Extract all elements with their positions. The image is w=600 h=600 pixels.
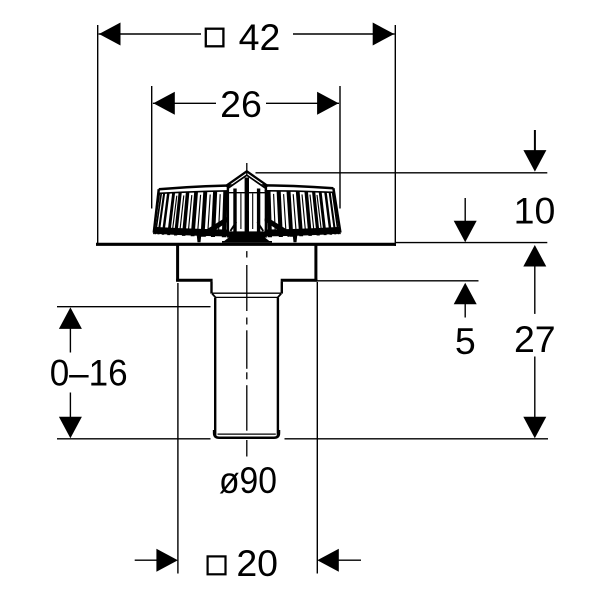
- collar bottom right segment: [281, 279, 318, 282]
- dimension 5 lower stem: [464, 304, 466, 318]
- dimension 26 right extension line: [339, 86, 341, 209]
- collar right edge: [314, 245, 317, 282]
- dimension 26 line right segment: [266, 102, 339, 104]
- dimension 10 arrow stem: [534, 130, 536, 151]
- dimension 26 left arrow: [153, 92, 175, 115]
- pipe right wall: [277, 298, 279, 437]
- socket left edge: [210, 282, 212, 294]
- dimension 20 left extension line: [177, 283, 179, 574]
- cap center bell: [226, 171, 268, 237]
- cap left wing grip: [200, 217, 231, 237]
- dimension 5 upper stem: [464, 198, 466, 221]
- roof plate thick line: [96, 243, 395, 246]
- socket bead lower line: [216, 296, 279, 298]
- pipe bottom edge: [214, 430, 279, 438]
- svg-text:10: 10: [514, 190, 556, 232]
- cap right tab: [293, 233, 298, 242]
- svg-text:20: 20: [236, 542, 278, 584]
- svg-text:ø90: ø90: [219, 459, 277, 501]
- dimension 0-16 upper stem: [69, 328, 71, 353]
- dimension 20 left tail line: [135, 559, 158, 561]
- svg-text:0–16: 0–16: [50, 351, 128, 393]
- dimension 27 up arrow: [523, 245, 546, 267]
- dimension 5 up arrow: [454, 283, 477, 305]
- dimension 26 line left segment: [153, 102, 216, 104]
- dimension 26 left extension line: [151, 86, 153, 209]
- dimension 42 right extension line: [394, 25, 396, 246]
- dimension 20 right extension line: [316, 282, 318, 574]
- pipe left wall: [214, 298, 216, 437]
- dimension 0-16 up arrow: [59, 307, 82, 329]
- dimension 27 lower stem: [534, 357, 536, 418]
- collar bottom left segment: [176, 279, 213, 282]
- cap left tab: [197, 233, 202, 242]
- dimension 42 line right segment: [293, 33, 395, 35]
- dimension 10 down arrow: [523, 150, 546, 172]
- dimension 20 square symbol: [208, 556, 226, 574]
- dimension 20 right arrow: [317, 549, 339, 572]
- dimension 27 bottom extension line: [285, 438, 549, 440]
- socket right edge: [281, 282, 283, 294]
- cap foot base line: [222, 241, 272, 243]
- socket right chamfer: [277, 294, 281, 298]
- svg-text:42: 42: [239, 16, 281, 58]
- dimension 42 left extension line: [97, 25, 99, 243]
- dimension 20 left arrow: [156, 549, 178, 572]
- svg-text:26: 26: [220, 83, 262, 125]
- dimension 5 line: [317, 280, 478, 282]
- dimension 0-16 bottom line: [57, 438, 211, 440]
- roof extension thin line: [395, 242, 547, 244]
- dimension 10 top extension line: [256, 172, 548, 174]
- pipe bottom inner line: [218, 433, 276, 435]
- dimension 42 line left segment: [99, 33, 201, 35]
- svg-text:5: 5: [455, 320, 476, 362]
- socket bead upper line: [212, 292, 281, 294]
- dimension 20 right tail line: [338, 559, 361, 561]
- dimension 0-16 lower stem: [69, 393, 71, 418]
- dimension 27 down arrow: [523, 417, 546, 439]
- dimension 0-16 down arrow: [59, 417, 82, 439]
- dimension 42 left arrow: [99, 23, 121, 46]
- center axis line: [246, 163, 248, 457]
- dimension 42 square symbol: [206, 29, 224, 47]
- svg-text:27: 27: [514, 318, 556, 360]
- collar left edge: [176, 245, 179, 282]
- knurled cap rim: [153, 185, 341, 237]
- dimension 5 down arrow: [454, 221, 477, 243]
- dimension 42 right arrow: [373, 23, 395, 46]
- dimension 27 upper stem: [534, 266, 536, 314]
- socket left chamfer: [212, 294, 216, 298]
- dimension 0-16 top line: [57, 306, 211, 308]
- cap right wing grip: [263, 217, 294, 237]
- cap foot: [222, 237, 271, 243]
- dimension 26 right arrow: [317, 92, 339, 115]
